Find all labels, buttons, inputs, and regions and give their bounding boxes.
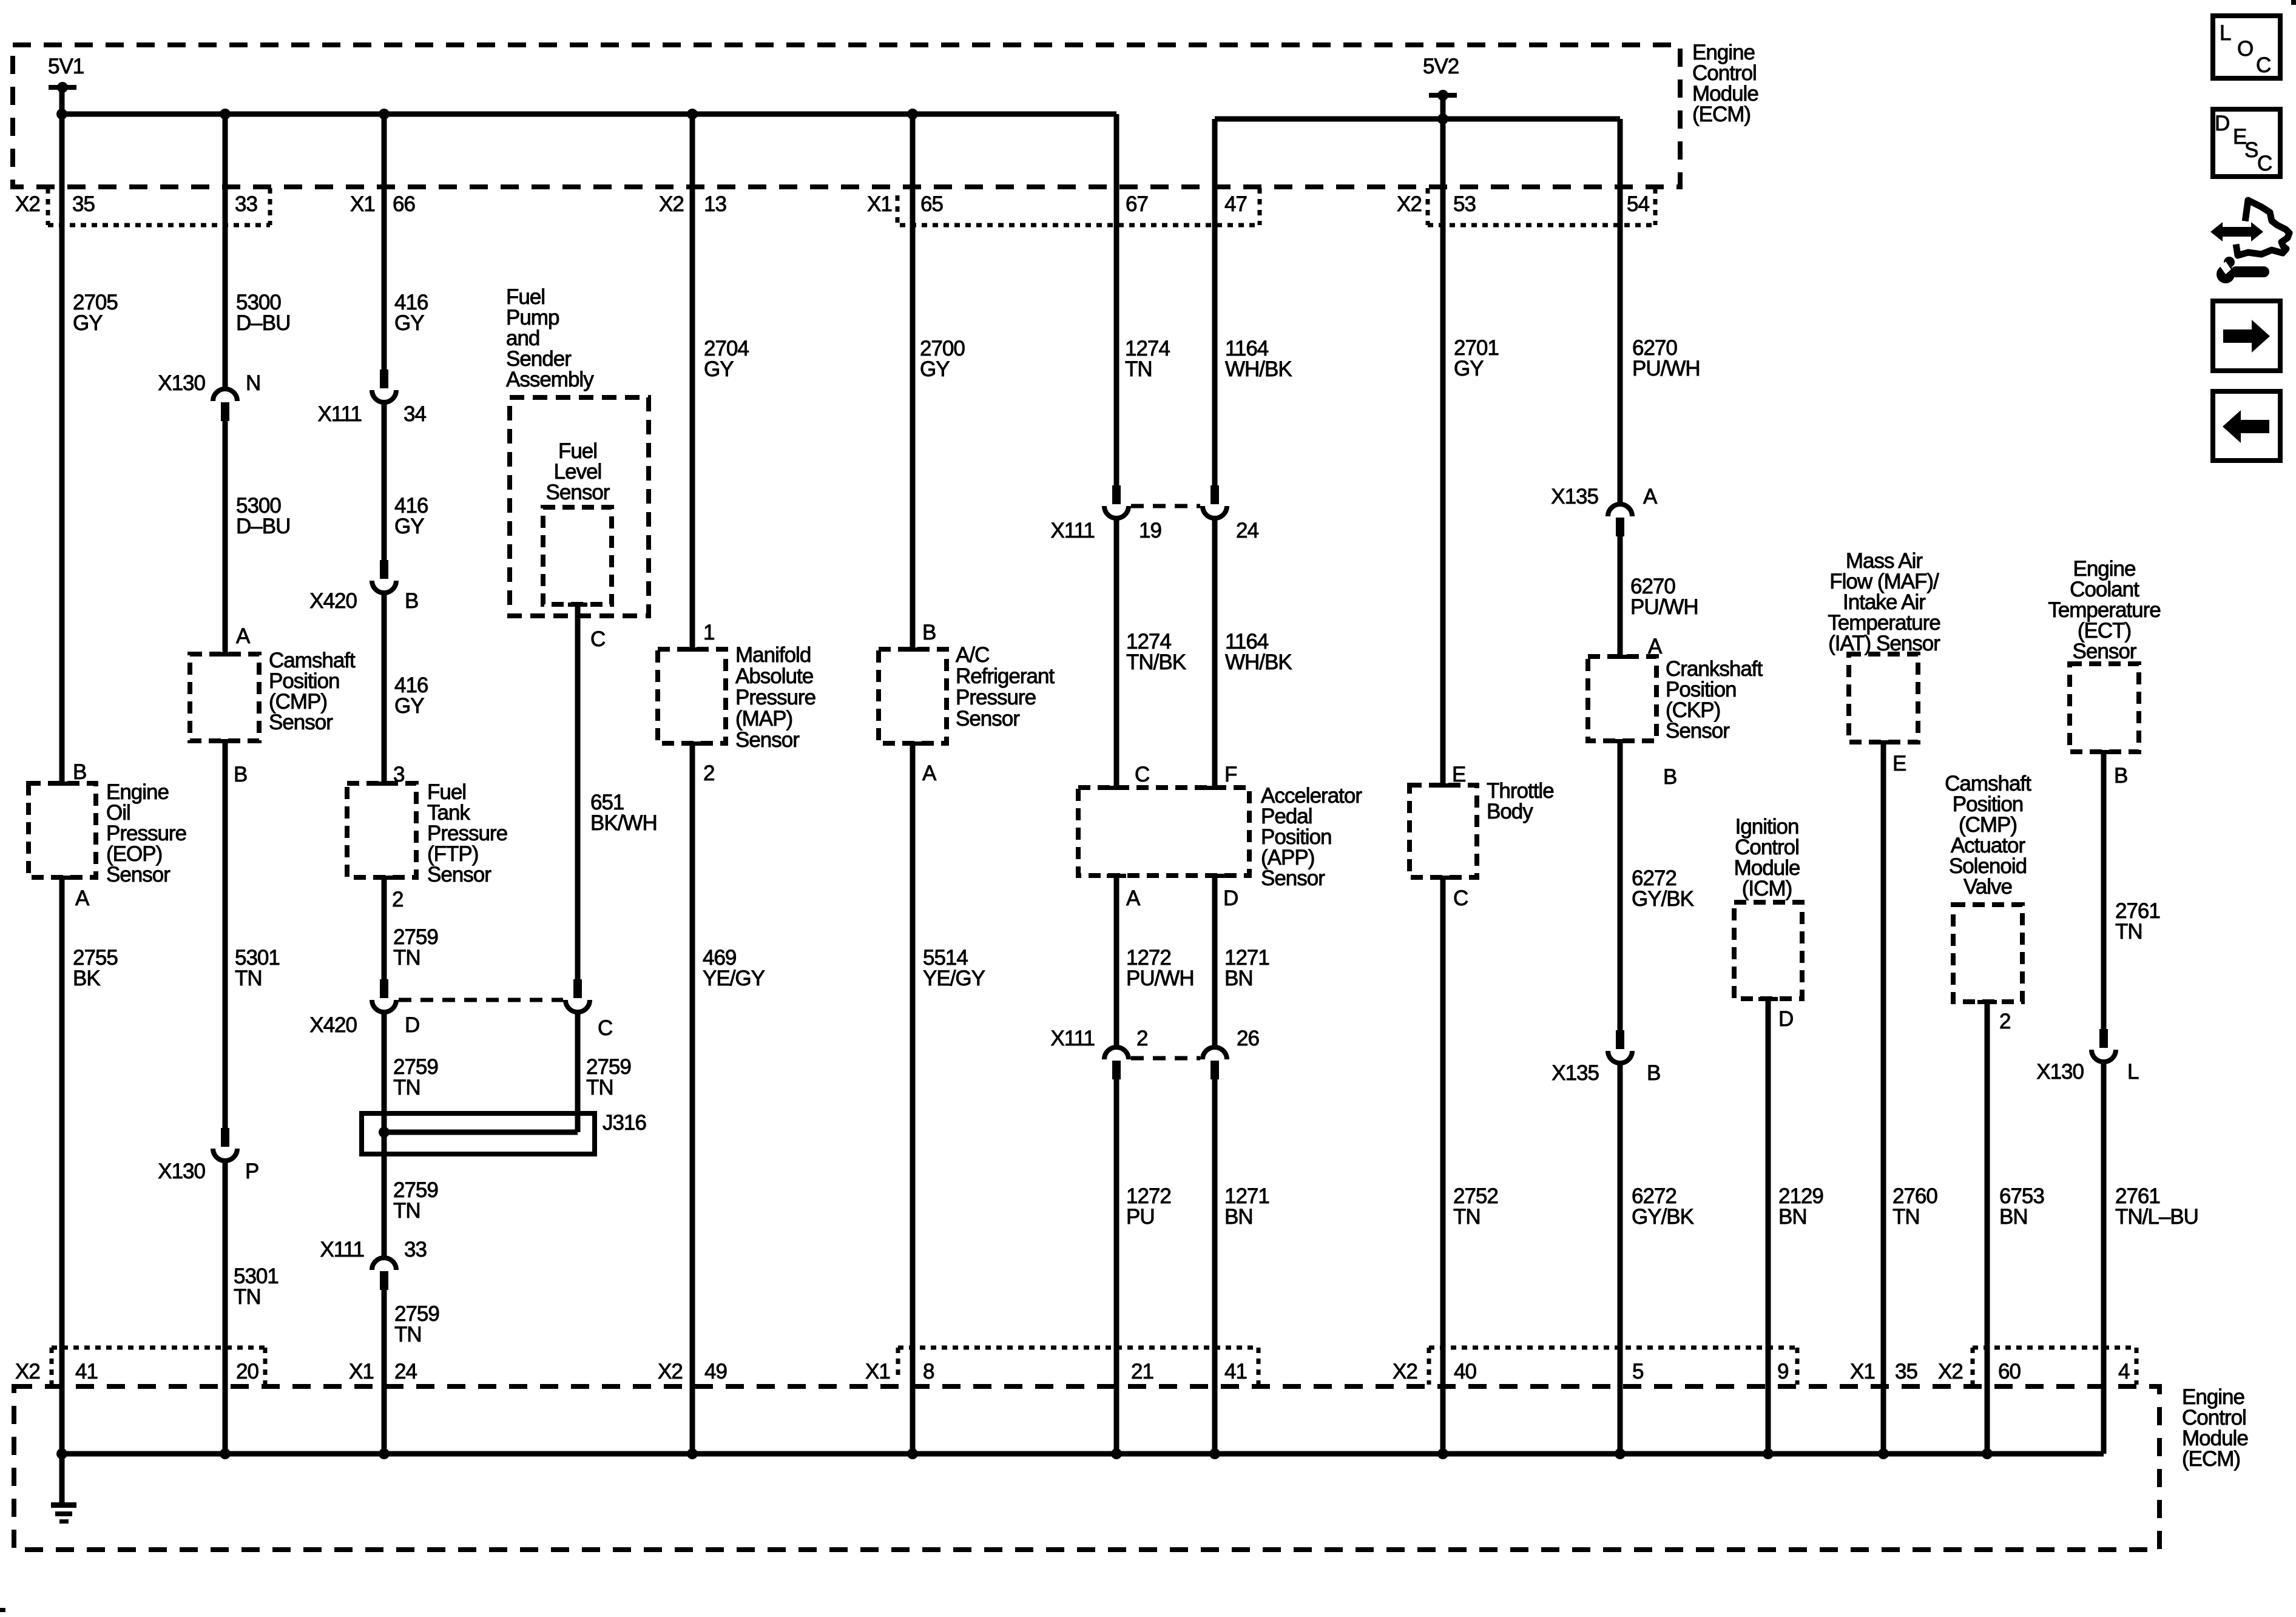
svg-text:5V2: 5V2 xyxy=(1423,55,1459,78)
pin B (CKP sensor bottom) xyxy=(1663,765,1676,789)
label pin L (X130) xyxy=(2127,1060,2139,1084)
svg-text:TN: TN xyxy=(393,1076,420,1099)
label connector X420 (D) xyxy=(309,1013,357,1037)
svg-text:BN: BN xyxy=(1778,1205,1807,1229)
ECM bottom connector X2 pins 40/5/9 dotted box xyxy=(1429,1348,1797,1385)
wire 6272 GY/BK (CKP B to X135 B) xyxy=(1618,741,1623,1031)
wire 5301 TN (X130 P to ECM X2-20) xyxy=(223,1158,228,1454)
svg-text:X1: X1 xyxy=(865,1360,890,1383)
svg-text:A: A xyxy=(1643,485,1658,508)
label: Mass Air Flow (MAF)/Intake Air Temperature (IAT) Sensor xyxy=(1828,549,1940,655)
svg-text:X1: X1 xyxy=(1850,1360,1875,1383)
svg-text:2: 2 xyxy=(1136,1027,1147,1050)
label wire 6272 GY/BK (upper) xyxy=(1632,866,1694,911)
wire 5V1 drop to bus xyxy=(59,87,65,114)
svg-text:X111: X111 xyxy=(1050,1027,1095,1050)
svg-text:X111: X111 xyxy=(1050,519,1095,542)
label wire 2755 BK xyxy=(73,946,118,990)
label: Fuel Level Sensor xyxy=(546,439,610,504)
svg-text:Manifold: Manifold xyxy=(735,643,811,667)
label: Ignition Control Module (ICM) xyxy=(1734,815,1800,900)
connector X130 pin N xyxy=(213,389,237,421)
connector X420 pin B xyxy=(372,560,396,593)
ECM (Engine Control Module) top dashed box xyxy=(13,45,1680,187)
svg-text:66: 66 xyxy=(393,192,415,216)
label pin D (X420) xyxy=(405,1013,419,1037)
svg-text:TN: TN xyxy=(394,1323,422,1346)
sensor Fuel Level Sensor dashed box xyxy=(543,507,612,607)
svg-text:PU/WH: PU/WH xyxy=(1632,357,1700,380)
label pin 34 (X111) xyxy=(403,402,426,426)
ECM (Engine Control Module) bottom dashed box xyxy=(14,1386,2159,1550)
svg-text:5: 5 xyxy=(1632,1360,1643,1383)
label connector X111 (2) xyxy=(1050,1027,1095,1050)
svg-text:BK: BK xyxy=(73,967,100,990)
node 5V2 terminal xyxy=(1429,90,1457,101)
pin 8 (ECM X1 bottom) xyxy=(923,1360,934,1383)
pin 13 (ECM X2) xyxy=(704,192,726,216)
svg-text:47: 47 xyxy=(1224,192,1247,216)
svg-text:PU/WH: PU/WH xyxy=(1126,967,1194,990)
svg-text:TN: TN xyxy=(393,1199,420,1223)
svg-text:Sensor: Sensor xyxy=(956,707,1020,731)
label connector X135 (A) xyxy=(1551,485,1598,508)
pin C (fuel level sensor) xyxy=(590,627,605,651)
pin B (ECT bottom) xyxy=(2114,764,2127,788)
svg-text:X130: X130 xyxy=(158,1160,205,1183)
connector X130 pin L xyxy=(2092,1029,2116,1062)
label connector X1 (pin 66) xyxy=(350,192,375,216)
pin 41 (ECM X1 bottom) xyxy=(1224,1360,1247,1383)
label wire 2129 BN xyxy=(1778,1184,1823,1229)
svg-text:(IAT) Sensor: (IAT) Sensor xyxy=(1828,632,1940,655)
pin 40 (ECM X2 bottom) xyxy=(1454,1360,1476,1383)
svg-text:WH/BK: WH/BK xyxy=(1225,650,1292,674)
valve CMP Actuator Solenoid dashed box xyxy=(1953,905,2022,1004)
wire 1274 TN/BK (X111 19 to APP sensor C) xyxy=(1114,516,1119,788)
wire 1271 BN (APP D to X111 26) xyxy=(1212,876,1218,1046)
splice J316 box xyxy=(362,1113,595,1154)
pin 60 (ECM X2 bottom) xyxy=(1998,1360,2021,1383)
label connector X1 (pin 24 bottom) xyxy=(349,1360,374,1383)
pin 5 (ECM X2 bottom) xyxy=(1632,1360,1643,1383)
pin 35 (ECM X2) xyxy=(72,192,95,216)
svg-text:C: C xyxy=(1453,886,1468,910)
svg-text:Body: Body xyxy=(1487,800,1533,823)
wire 416 GY (ECM X1-66 to X111 34) xyxy=(382,114,387,371)
label wire 5514 YE/GY xyxy=(923,946,985,990)
svg-text:B: B xyxy=(1647,1061,1660,1085)
svg-text:41: 41 xyxy=(75,1360,98,1383)
label connector X2 (pin 53) xyxy=(1397,192,1422,216)
wire 2761 TN/L-BU (X130 L to ECM X2-4) xyxy=(2101,1059,2107,1454)
sensor Engine Oil Pressure (EOP) dashed box xyxy=(29,781,96,880)
label connector X2 (top left) xyxy=(15,192,40,216)
connector X420 pin D xyxy=(372,979,396,1012)
label wire 2701 GY xyxy=(1454,336,1499,380)
svg-text:13: 13 xyxy=(704,192,726,216)
svg-text:C: C xyxy=(590,627,605,651)
svg-text:GY: GY xyxy=(704,357,734,381)
svg-text:X2: X2 xyxy=(1397,192,1422,216)
pin 35 (ECM X1 bottom) xyxy=(1895,1360,1917,1383)
label wire 5300 D-BU (upper) xyxy=(236,291,290,335)
module Ignition Control Module (ICM) dashed box xyxy=(1734,902,1802,1001)
wire dashed link X111 2 to 26 xyxy=(1131,1056,1200,1061)
connector X111 pin 33 xyxy=(372,1258,396,1290)
svg-text:67: 67 xyxy=(1126,192,1148,216)
label wire 2761 TN/L-BU xyxy=(2115,1184,2198,1229)
label connector X2 (bottom left) xyxy=(15,1360,40,1383)
svg-text:GY/BK: GY/BK xyxy=(1632,887,1694,911)
label wire 6753 BN xyxy=(1999,1184,2044,1229)
connector X135 pin A xyxy=(1608,504,1632,536)
wire 6270 PU/WH (X135 A to CKP sensor A) xyxy=(1618,536,1623,657)
label pin A (X135) xyxy=(1643,485,1658,508)
svg-text:41: 41 xyxy=(1224,1360,1247,1383)
svg-text:X111: X111 xyxy=(317,402,362,426)
svg-text:1: 1 xyxy=(703,621,714,644)
sensor Accelerator Pedal Position (APP) dashed box xyxy=(1078,786,1249,878)
label wire 1272 PU/WH xyxy=(1126,946,1194,990)
label pin 26 (X111) xyxy=(1237,1027,1259,1050)
wire 5V2 supply bus xyxy=(1215,113,1620,124)
svg-text:X1: X1 xyxy=(350,192,375,216)
label connector X2 (pin 60 bottom) xyxy=(1938,1360,1963,1383)
svg-text:20: 20 xyxy=(236,1360,258,1383)
svg-text:PU: PU xyxy=(1126,1205,1155,1229)
label wire 2759 TN (FTP to X420) xyxy=(393,925,438,970)
label wire 2759 TN (below J316) xyxy=(393,1178,438,1223)
svg-text:33: 33 xyxy=(404,1238,427,1261)
icon back arrow box xyxy=(2213,391,2280,461)
svg-text:GY/BK: GY/BK xyxy=(1632,1205,1694,1229)
svg-text:5V1: 5V1 xyxy=(48,55,84,78)
sensor Manifold Absolute Pressure (MAP) dashed box xyxy=(658,647,726,746)
label wire 416 GY (lower) xyxy=(394,673,428,718)
svg-text:GY: GY xyxy=(73,311,103,335)
pin C (APP sensor top) xyxy=(1135,763,1149,786)
label: Manifold Absolute Pressure (MAP) Sensor xyxy=(735,643,815,752)
label connector X1 (pin 65) xyxy=(867,192,892,216)
svg-text:B: B xyxy=(234,763,247,786)
svg-text:X2: X2 xyxy=(1393,1360,1417,1383)
svg-text:D: D xyxy=(1778,1007,1793,1031)
wire 2761 TN (ECT B to X130 L) xyxy=(2101,752,2107,1030)
svg-text:D: D xyxy=(1223,886,1238,910)
label connector X135 (B) xyxy=(1551,1061,1599,1085)
label splice J316 xyxy=(603,1111,646,1135)
svg-text:Assembly: Assembly xyxy=(506,368,594,391)
pin 49 (ECM X2 bottom) xyxy=(704,1360,727,1383)
label: Engine Oil Pressure (EOP) Sensor xyxy=(106,780,186,886)
svg-text:(MAP): (MAP) xyxy=(735,707,792,731)
connector X135 pin B xyxy=(1608,1030,1632,1063)
svg-text:TN: TN xyxy=(235,967,262,990)
pin 53 (ECM X2) xyxy=(1453,192,1476,216)
svg-text:X2: X2 xyxy=(658,1360,683,1383)
pin B (A/C sensor top) xyxy=(922,621,936,644)
label wire 1271 BN (lower) xyxy=(1224,1184,1269,1229)
svg-text:2: 2 xyxy=(703,761,714,785)
label connector X130 (L) xyxy=(2036,1060,2084,1084)
wire 6753 BN (CMP actuator 2 to ECM X2-60) xyxy=(1985,1002,1990,1454)
pin A (EOP bottom) xyxy=(75,886,90,910)
label: Camshaft Position (CMP) Sensor xyxy=(269,649,356,734)
svg-text:(ICM): (ICM) xyxy=(1742,877,1792,900)
svg-text:Sensor: Sensor xyxy=(735,728,800,752)
svg-text:C: C xyxy=(1135,763,1149,786)
svg-text:35: 35 xyxy=(72,192,95,216)
pin 33 (ECM X2) xyxy=(235,192,257,216)
label wire 2759 TN (above J316) xyxy=(393,1055,438,1099)
svg-text:B: B xyxy=(1663,765,1676,789)
wire 5301 TN (CMP B to X130 P) xyxy=(223,741,228,1129)
mark top-right corner xyxy=(2291,0,2296,5)
pin 20 (ECM X2 bottom) xyxy=(236,1360,258,1383)
wire 1272 PU (X111 2 to ECM pin 21) xyxy=(1114,1079,1119,1454)
svg-text:(ECM): (ECM) xyxy=(1692,103,1751,126)
label pin 2 (X111) xyxy=(1136,1027,1147,1050)
sensor Fuel Tank Pressure (FTP) dashed box xyxy=(347,781,416,880)
label pin B (X420) xyxy=(405,589,418,613)
label pin 24 (X111) xyxy=(1236,519,1258,542)
svg-text:YE/GY: YE/GY xyxy=(703,967,765,990)
svg-text:L: L xyxy=(2220,21,2231,45)
label wire 2760 TN xyxy=(1893,1184,1937,1229)
svg-text:53: 53 xyxy=(1453,192,1476,216)
label: Accelerator Pedal Position (APP) Sensor xyxy=(1261,784,1362,890)
icon diagnostic hand/wrench with arrows xyxy=(2210,200,2289,283)
svg-text:Pressure: Pressure xyxy=(735,686,815,709)
svg-text:B: B xyxy=(2114,764,2127,788)
svg-text:Sensor: Sensor xyxy=(546,481,610,504)
svg-text:X420: X420 xyxy=(309,1013,357,1037)
wire 416 GY (X420 B to FTP sensor 3) xyxy=(382,590,387,783)
svg-text:X2: X2 xyxy=(1938,1360,1963,1383)
pin A (CMP sensor top) xyxy=(236,624,251,648)
svg-text:24: 24 xyxy=(394,1360,417,1383)
svg-text:Refrigerant: Refrigerant xyxy=(956,664,1055,688)
svg-text:2: 2 xyxy=(1999,1010,2010,1033)
label wire 1164 WH/BK (lower) xyxy=(1225,630,1292,674)
svg-text:35: 35 xyxy=(1895,1360,1917,1383)
svg-text:J316: J316 xyxy=(603,1111,646,1135)
label connector X2 (pin 49 bottom) xyxy=(658,1360,683,1383)
svg-text:N: N xyxy=(246,371,260,395)
wire 5V2 drop to bus xyxy=(1440,95,1446,119)
svg-text:Sensor: Sensor xyxy=(2073,640,2137,663)
label connector X111 (33) xyxy=(320,1238,364,1261)
icon LOC box xyxy=(2213,16,2280,78)
wire 1164 WH/BK (X111 24 to APP sensor F) xyxy=(1212,516,1218,788)
wire 2759 TN (J316 to X111 33) xyxy=(382,1132,387,1257)
svg-text:Sensor: Sensor xyxy=(269,711,333,734)
wire 2755 BK (EOP A to ECM X2-41) xyxy=(59,877,65,1454)
svg-text:TN: TN xyxy=(1125,357,1152,381)
pin B (CMP sensor bottom) xyxy=(234,763,247,786)
svg-text:33: 33 xyxy=(235,192,257,216)
label pin 19 (X111) xyxy=(1139,519,1161,542)
svg-text:49: 49 xyxy=(704,1360,727,1383)
wire 2129 BN (ICM D to ECM pin 9) xyxy=(1766,999,1771,1454)
label: Throttle Body xyxy=(1487,779,1554,823)
wire 2759 TN (X420 D to splice J316) xyxy=(382,1010,387,1132)
svg-text:B: B xyxy=(405,589,418,613)
label wire 5301 TN (upper) xyxy=(235,946,280,990)
svg-text:40: 40 xyxy=(1454,1360,1476,1383)
ECM bottom connector X1 pins 8/21/41 dotted box xyxy=(898,1348,1258,1385)
svg-text:54: 54 xyxy=(1627,192,1649,216)
svg-text:Sensor: Sensor xyxy=(1666,719,1730,743)
svg-text:F: F xyxy=(1224,763,1237,786)
svg-text:TN/BK: TN/BK xyxy=(1126,650,1186,674)
svg-text:TN: TN xyxy=(393,946,420,970)
svg-text:E: E xyxy=(1893,752,1906,775)
sensor Camshaft Position (CMP) dashed box xyxy=(190,652,259,743)
svg-text:A: A xyxy=(922,761,937,785)
ground symbol xyxy=(51,1454,76,1524)
label connector X420 (B) xyxy=(309,589,357,613)
wire 651 BK/WH (fuel level sensor C to X420 C) xyxy=(575,604,581,981)
svg-text:B: B xyxy=(73,760,86,784)
node 5V1 terminal xyxy=(49,82,76,93)
pin 4 (ECM X2 bottom) xyxy=(2118,1360,2130,1383)
label connector X1 (pin 8 bottom) xyxy=(865,1360,890,1383)
pin 21 (ECM X1 bottom) xyxy=(1131,1360,1153,1383)
svg-text:60: 60 xyxy=(1998,1360,2021,1383)
svg-text:P: P xyxy=(245,1160,258,1183)
svg-text:GY: GY xyxy=(394,694,424,718)
svg-text:8: 8 xyxy=(923,1360,934,1383)
label: Camshaft Position (CMP) Actuator Solenoid Valve xyxy=(1945,772,2031,899)
label: Engine Control Module (ECM) top right xyxy=(1692,41,1758,126)
svg-text:Sensor: Sensor xyxy=(106,863,171,886)
pin 2 (FTP sensor bottom) xyxy=(392,888,403,911)
ECM top connector X1 pins 65/67/47 dotted box xyxy=(897,188,1260,225)
svg-text:TN: TN xyxy=(2115,920,2142,944)
pin A (CKP sensor top) xyxy=(1648,635,1663,658)
connector X111 pin 2 xyxy=(1104,1047,1129,1079)
svg-text:A: A xyxy=(236,624,251,648)
pin 3 (FTP sensor top) xyxy=(393,763,404,786)
ECM top connector X2 pins 35/33 dotted box xyxy=(48,188,270,225)
svg-text:L: L xyxy=(2127,1060,2139,1084)
label: Engine Coolant Temperature (ECT) Sensor xyxy=(2048,557,2160,663)
ECM top connector X2 pins 53/54 dotted box xyxy=(1428,188,1655,225)
wire 1272 PU/WH (APP A to X111 2) xyxy=(1114,876,1119,1046)
mark bottom-left corner xyxy=(0,1608,5,1612)
svg-text:BN: BN xyxy=(1999,1205,2028,1229)
label: Engine Control Module (ECM) bottom right xyxy=(2182,1385,2248,1471)
svg-text:GY: GY xyxy=(394,311,424,335)
pin D (ICM bottom) xyxy=(1778,1007,1793,1031)
sensor Crankshaft Position (CKP) dashed box xyxy=(1588,655,1656,743)
wire 1164 WH/BK (ECM X1-47 to X111 24) xyxy=(1212,119,1218,487)
wire ECM internal ground bus xyxy=(56,1448,2104,1459)
svg-text:X135: X135 xyxy=(1551,1061,1599,1085)
svg-text:A: A xyxy=(1126,886,1141,910)
pin 66 (ECM X1) xyxy=(393,192,415,216)
svg-text:PU/WH: PU/WH xyxy=(1630,595,1698,619)
wire 5300 D-BU (ECM X2-33 to X130 N) xyxy=(223,114,228,388)
connector X420 pin C xyxy=(566,979,590,1012)
label pin 33 (X111) xyxy=(404,1238,427,1261)
label wire 416 GY (middle) xyxy=(394,494,428,538)
svg-text:C: C xyxy=(2256,53,2271,77)
label wire 651 BK/WH xyxy=(590,791,657,835)
svg-text:65: 65 xyxy=(920,192,943,216)
svg-text:GY: GY xyxy=(920,357,950,381)
pin 9 (ECM X2 bottom) xyxy=(1777,1360,1788,1383)
svg-text:WH/BK: WH/BK xyxy=(1225,357,1292,381)
wire 2760 TN (MAF E to ECM X1-35) xyxy=(1881,742,1886,1454)
sensor MAF/IAT dashed box xyxy=(1849,654,1918,744)
label wire 5301 TN (lower) xyxy=(234,1264,279,1309)
label connector X2 (pin 40 bottom) xyxy=(1393,1360,1417,1383)
svg-text:Absolute: Absolute xyxy=(735,664,813,688)
svg-text:X1: X1 xyxy=(349,1360,374,1383)
wire 1274 TN (ECM X1-67 to X111 19) xyxy=(1114,114,1119,487)
ECM bottom connector X2 pins 41/20 dotted box xyxy=(52,1348,265,1385)
wire 6270 PU/WH (ECM X2-54 to X135 A) xyxy=(1618,119,1623,503)
pin B (EOP top) xyxy=(73,760,86,784)
label: A/C Refrigerant Pressure Sensor xyxy=(956,643,1055,731)
svg-text:D–BU: D–BU xyxy=(236,311,290,335)
label connector X2 (pin 13) xyxy=(659,192,684,216)
label wire 2752 TN xyxy=(1453,1184,1498,1229)
label wire 469 YE/GY xyxy=(703,946,765,990)
label wire 1164 WH/BK (upper) xyxy=(1225,337,1292,381)
svg-text:4: 4 xyxy=(2118,1360,2130,1383)
svg-text:Sensor: Sensor xyxy=(1261,866,1325,890)
label wire 6272 GY/BK (lower) xyxy=(1632,1184,1694,1229)
sensor A/C Refrigerant Pressure dashed box xyxy=(879,647,947,746)
label connector X111 (19) xyxy=(1050,519,1095,542)
label: Crankshaft Position (CKP) Sensor xyxy=(1666,657,1763,743)
wire 469 YE/GY (MAP 2 to ECM X2-49) xyxy=(690,743,695,1454)
label wire 6270 PU/WH (upper) xyxy=(1632,336,1700,380)
pin 24 (ECM X1 bottom) xyxy=(394,1360,417,1383)
wire dashed link X111 19 to 24 xyxy=(1131,504,1200,508)
pin D (APP sensor bottom) xyxy=(1223,886,1238,910)
wire 2701 GY (ECM X2-53 to throttle body E) xyxy=(1440,119,1446,785)
pin 2 (MAP sensor bottom) xyxy=(703,761,714,785)
svg-text:(ECM): (ECM) xyxy=(2182,1447,2240,1471)
svg-text:GY: GY xyxy=(394,515,424,538)
pin E (throttle body top) xyxy=(1452,763,1465,786)
pin A (APP sensor bottom) xyxy=(1126,886,1141,910)
label connector X1 (pin 35 bottom) xyxy=(1850,1360,1875,1383)
label wire 1272 PU xyxy=(1126,1184,1171,1229)
label pin B (X135) xyxy=(1647,1061,1660,1085)
label pin P (X130) xyxy=(245,1160,258,1183)
pin 67 (ECM X1) xyxy=(1126,192,1148,216)
svg-text:C: C xyxy=(598,1016,612,1040)
svg-text:21: 21 xyxy=(1131,1360,1153,1383)
pin 65 (ECM X1) xyxy=(920,192,943,216)
wire 2759 TN (X420 C to splice J316) xyxy=(575,1010,581,1132)
connector X111 pin 24 xyxy=(1203,485,1227,518)
svg-text:X2: X2 xyxy=(15,1360,40,1383)
assembly Fuel Pump and Sender dashed box xyxy=(510,397,649,616)
svg-text:X2: X2 xyxy=(659,192,684,216)
wire 2704 GY (ECM X2-13 to MAP sensor 1) xyxy=(690,114,695,649)
pin 47 (ECM X1) xyxy=(1224,192,1247,216)
wire 5300 D-BU (X130 N to CMP sensor A) xyxy=(223,421,228,654)
wire dashed link X420 D to C xyxy=(399,998,563,1002)
connector X130 pin P xyxy=(213,1128,237,1161)
